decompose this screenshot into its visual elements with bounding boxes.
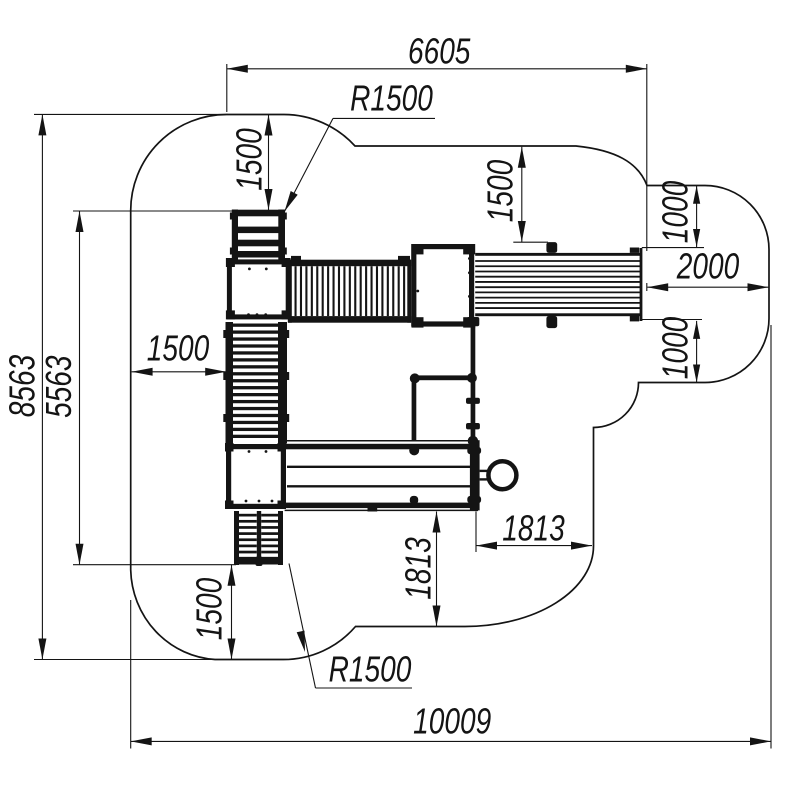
svg-text:2000: 2000 [676,246,739,286]
vertical post with clamps [466,317,480,446]
slide chute [475,242,642,328]
dimension 1813 left arrow down [433,606,441,627]
dimension 10009 line [131,740,771,742]
extension line bottom (y=659.5 left of zone, for 8563) [34,659,216,661]
dimension 1813 right line [476,545,592,547]
dimension 1000 top line [696,186,698,247]
extension line ladder-top level (y=211, for 5563) [73,210,232,212]
extension line top (y=114.4 left of zone, for 8563) [34,113,228,115]
platform A upper-left tower [226,258,291,319]
dimension 1000 bottom arrow down [693,365,700,383]
svg-text:R1500: R1500 [350,78,433,118]
svg-text:1500: 1500 [147,328,209,368]
dimension 1500 bottom arrow down [228,639,236,660]
stairs ramp [223,322,289,444]
ladder L1 top entry [230,210,287,263]
dimension 1500 top-left arrow up [265,115,273,136]
dimension 2000 arrow right [748,283,769,291]
dimension 8563 line [41,114,43,659]
dimension 10009 arrow right [750,737,771,745]
dimension 6605 arrow right [626,65,647,73]
platform C lower-left tower [225,443,286,509]
extension line y=319.5 right of slide (1000 bottom) [642,319,702,321]
bench balance beam structure [285,440,481,511]
svg-text:5563: 5563 [39,355,79,417]
railing handrail rectangle [409,373,477,456]
dimension 1000 top arrow down [693,229,700,247]
dimension 1500 mid arrow up [518,147,526,168]
dimension 1500 left arrow right [205,368,226,376]
svg-text:R1500: R1500 [329,649,412,689]
dimension 1813 left arrow up [433,512,441,533]
dimension 1500 mid line [521,147,523,242]
extension line x=476 below bench (1813 right) [475,511,477,552]
dimension 8563 arrow up [38,114,46,135]
dimension 1500 top-left arrow down [265,189,273,210]
dimension 1500 bottom arrow up [228,565,236,586]
dimension 8563 arrow down [38,639,46,660]
svg-text:1000: 1000 [655,181,695,243]
dimension 1500 bottom line [231,565,233,660]
dimension 1813 right arrow right [571,542,592,550]
dimension 5563 line [79,211,81,565]
leader R1500 top arrow [285,191,298,212]
steering wheel [480,461,517,489]
extension line x=646.8 (6605 right / 2000 left) [646,64,648,251]
dimension 10009 arrow left [131,737,152,745]
svg-text:1813: 1813 [398,537,438,599]
dimension 1000 top arrow up [693,186,700,204]
dimension 2000 line [647,286,768,288]
leader R1500 bottom line [289,564,316,689]
dimension 1500 mid arrow down [518,221,526,242]
dimension 1500 top-left line [268,115,270,211]
dimension 1000 bottom line [696,321,698,383]
svg-text:6605: 6605 [408,31,471,71]
dimension 1813 right arrow left [476,542,497,550]
leader R1500 bottom arrow [297,631,305,652]
svg-text:10009: 10009 [413,701,491,741]
dimension 5563 arrow up [76,211,84,232]
dimension 5563 arrow down [76,544,84,565]
extension line y=247.6 right of slide (1000 top) [642,247,704,249]
svg-text:1813: 1813 [502,508,564,548]
bridge with vertical slats [288,256,411,323]
dimension 1500 left arrow left [132,368,153,376]
extension line ladder-bottom level (y=564.7, for 5563/1500) [73,564,236,566]
dimension 6605 line [227,68,647,70]
safety zone boundary outline [131,115,769,660]
extension line x=771 (10009 right) [770,325,772,749]
svg-text:8563: 8563 [2,355,42,417]
dimension 6605 arrow left [227,65,248,73]
ladder L2 bottom double ladder [234,511,283,566]
extension line x=130.7 (10009 left) [130,600,132,749]
dimension 1813 left line [436,512,438,627]
svg-text:1500: 1500 [189,578,229,640]
dimension 1000 bottom arrow up [693,321,700,339]
dimension 2000 arrow left [647,283,668,291]
leader R1500 top line [333,117,435,119]
platform B slide tower [412,244,476,328]
svg-text:1000: 1000 [655,317,695,379]
extension line y=242.2 at slide handle (1500 mid) [513,241,548,243]
svg-text:1500: 1500 [480,160,520,222]
extension line x=226.8 (6605 left) [226,64,228,112]
svg-text:1500: 1500 [229,128,269,190]
dimension 1500 left line [132,371,227,373]
